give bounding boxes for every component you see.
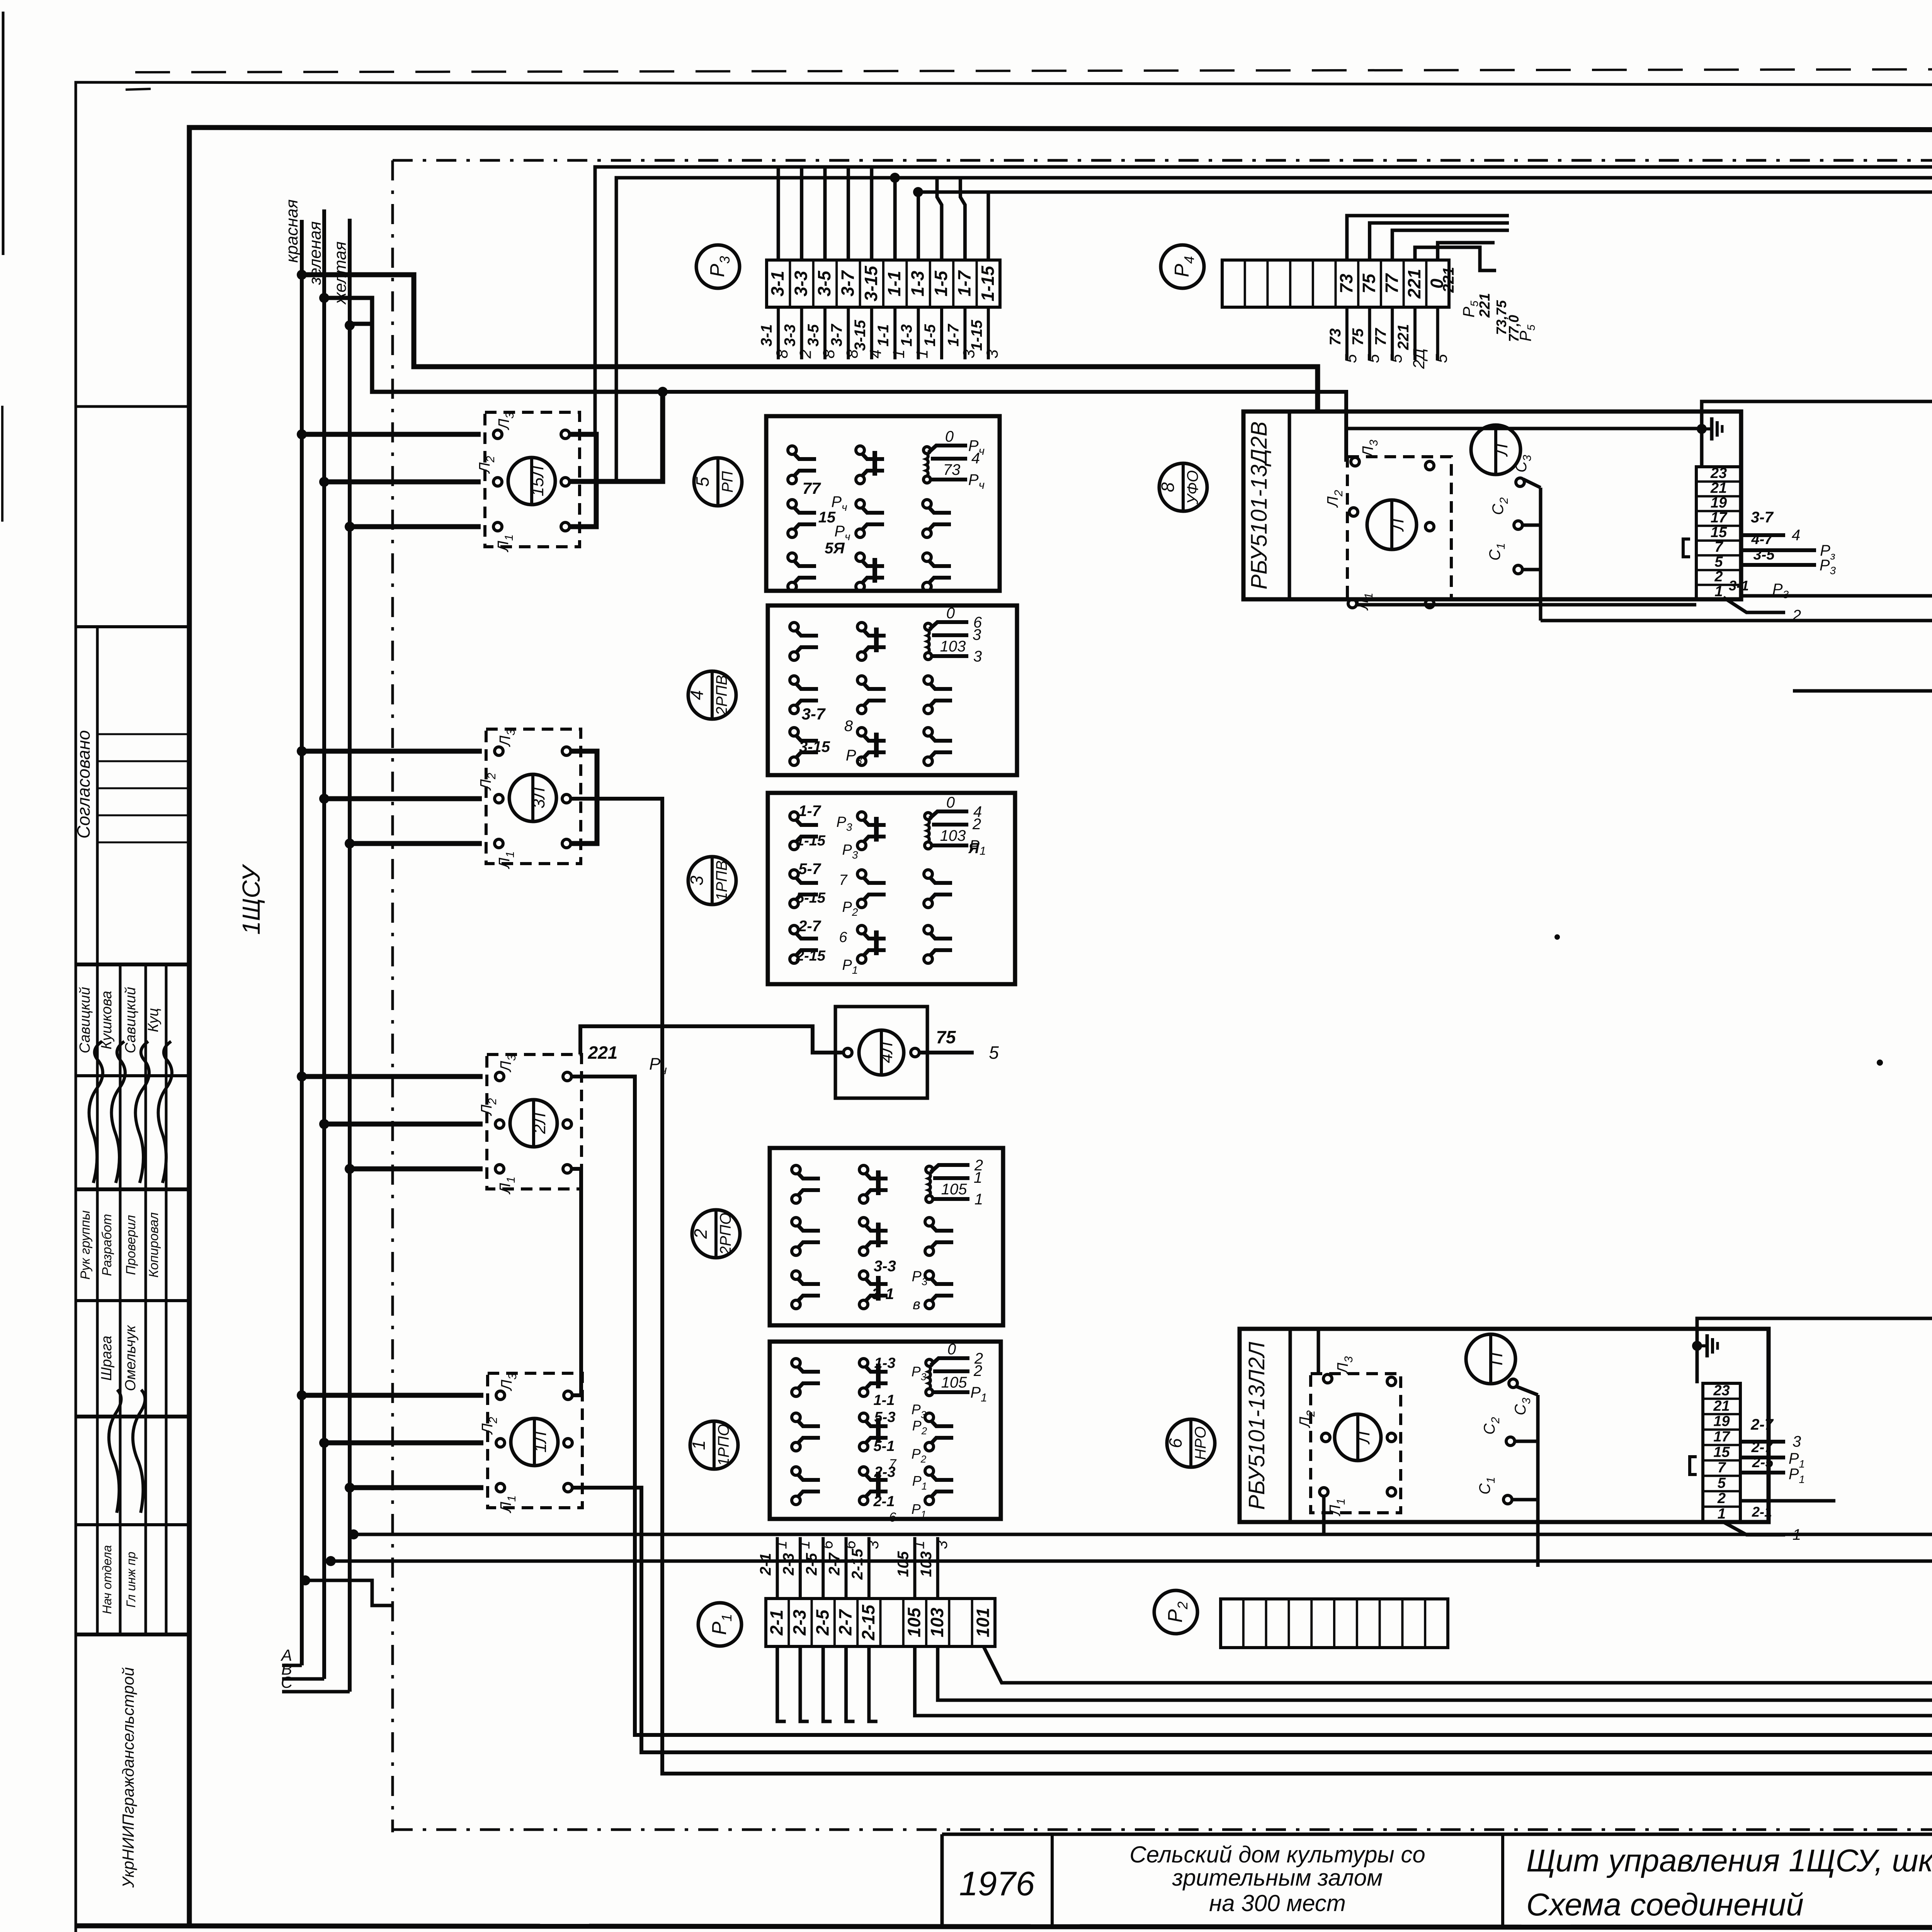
svg-text:3-15: 3-15 — [799, 738, 830, 755]
contact 1РПВ — [857, 812, 866, 820]
stamp thin sub rows — [97, 733, 189, 735]
wire red A stub — [300, 1575, 310, 1585]
svg-text:РБУ5101-13Л2Л: РБУ5101-13Л2Л — [1244, 1342, 1269, 1510]
contact РП — [788, 446, 796, 454]
contact РП — [856, 553, 864, 561]
wire red feed to RP coil — [302, 275, 1318, 412]
svg-text:3-3: 3-3 — [874, 1258, 896, 1275]
svg-text:1-3: 1-3 — [874, 1355, 896, 1371]
svg-text:5: 5 — [989, 1043, 999, 1063]
svg-text:П: П — [1486, 1352, 1506, 1366]
svg-text:1: 1 — [975, 1191, 983, 1208]
svg-text:6: 6 — [839, 929, 847, 946]
svg-text:Разработ: Разработ — [100, 1214, 114, 1276]
contact 2РПО — [792, 1165, 800, 1174]
svg-text:Л: Л — [1353, 1431, 1373, 1445]
wire yellow jog join — [350, 322, 372, 326]
wire Л1 to strip bottom — [1357, 603, 1696, 607]
svg-text:2-1: 2-1 — [767, 1610, 787, 1636]
terminal circle Р4 — [1161, 245, 1204, 288]
svg-text:5-3: 5-3 — [874, 1409, 896, 1425]
svg-text:2РПО: 2РПО — [717, 1213, 734, 1255]
contact 2РПВ — [857, 728, 866, 736]
wire phase to 2Л Л3 — [297, 1071, 307, 1082]
contact РП — [856, 446, 864, 454]
svg-text:Копировал: Копировал — [146, 1212, 161, 1277]
svg-text:103: 103 — [940, 638, 966, 655]
svg-text:2: 2 — [1717, 1490, 1726, 1507]
svg-text:красная: красная — [282, 199, 301, 263]
svg-text:2: 2 — [1714, 569, 1723, 585]
contact 2РПВ — [857, 676, 866, 684]
scan speck — [1554, 934, 1560, 940]
svg-text:1: 1 — [689, 1440, 709, 1450]
svg-text:2-7: 2-7 — [1751, 1439, 1774, 1456]
svg-text:2: 2 — [796, 349, 815, 359]
svg-text:1-7: 1-7 — [954, 270, 974, 296]
svg-text:6: 6 — [842, 1540, 859, 1549]
svg-text:8: 8 — [773, 349, 791, 359]
contact 2РПВ — [790, 676, 798, 684]
svg-text:0: 0 — [947, 1341, 956, 1358]
contact 2РПВ — [924, 676, 932, 684]
svg-text:75: 75 — [1350, 328, 1367, 345]
contact 1РПО — [859, 1359, 868, 1367]
svg-text:6: 6 — [819, 1540, 836, 1549]
lamp box 3Л — [486, 729, 581, 864]
terminal strip Р1 — [766, 1599, 995, 1646]
svg-text:103: 103 — [918, 1551, 935, 1577]
svg-text:УкрНИИПграждансельстрой: УкрНИИПграждансельстрой — [119, 1667, 137, 1888]
svg-text:77: 77 — [1381, 273, 1401, 294]
wire ground spur left — [1346, 427, 1702, 430]
svg-text:1: 1 — [1714, 583, 1723, 600]
contact 1РПВ — [857, 870, 866, 878]
svg-text:17: 17 — [1713, 1429, 1730, 1445]
designator circle 6 НРО — [1167, 1419, 1215, 1467]
svg-text:3-1: 3-1 — [758, 324, 775, 347]
svg-text:1: 1 — [913, 349, 931, 358]
contact РП — [923, 553, 931, 561]
terminal strip Р2 — [1221, 1599, 1448, 1648]
node green top feed — [319, 293, 329, 303]
contact 2РПО — [859, 1165, 868, 1174]
svg-text:6: 6 — [889, 1510, 896, 1525]
wire 1Л top-right jumper to 2Л — [572, 1169, 581, 1395]
svg-text:221: 221 — [1404, 269, 1424, 299]
svg-text:2-15: 2-15 — [849, 1548, 866, 1580]
svg-text:Схема соединений: Схема соединений — [1526, 1887, 1804, 1922]
svg-text:5-7: 5-7 — [798, 861, 821, 878]
svg-text:6: 6 — [1165, 1438, 1185, 1448]
svg-text:3Л: 3Л — [529, 787, 548, 808]
paper edge wavy dashes top — [135, 68, 1932, 72]
svg-text:1: 1 — [773, 1541, 790, 1549]
svg-text:Щит управления 1ЩСУ, шкаф 1: Щит управления 1ЩСУ, шкаф 1 — [1526, 1843, 1932, 1878]
stamp column dividers — [96, 627, 99, 1634]
svg-text:4: 4 — [971, 450, 980, 467]
svg-text:4: 4 — [687, 690, 707, 700]
wire Р1 101 to 4С — [983, 1212, 1932, 1683]
contact 1РПВ — [924, 925, 932, 934]
svg-text:1-5: 1-5 — [931, 270, 951, 296]
svg-text:Гл инж пр: Гл инж пр — [124, 1552, 138, 1608]
phase bus green vertical — [322, 209, 326, 1679]
svg-text:3-1: 3-1 — [1729, 578, 1749, 594]
wire phase to 1Л Л2 — [319, 1438, 329, 1448]
lamp box 1Л — [488, 1373, 582, 1508]
svg-text:3-7: 3-7 — [837, 270, 857, 296]
svg-text:2: 2 — [973, 1362, 982, 1379]
component box РБУ5101-13Д2В — [1243, 412, 1741, 599]
lamp box 15Л — [485, 412, 580, 547]
designator circle 3 1РПВ — [688, 857, 736, 905]
relay box 2РПВ — [768, 605, 1017, 775]
wire phase to 1Л Л1 — [345, 1483, 355, 1493]
upper box dashed lamp unit — [1347, 457, 1451, 599]
designator circle 5 РП — [694, 458, 742, 506]
wire lower Л1 to 3С net — [1322, 1496, 1326, 1534]
svg-text:5-1: 5-1 — [874, 1438, 895, 1454]
stamp band lines — [76, 405, 189, 408]
contact 1РПВ — [857, 925, 866, 934]
svg-text:2-3: 2-3 — [789, 1609, 810, 1636]
Р3 strip lower stubs and labels — [777, 307, 780, 359]
wire phase to 2Л Л2 — [319, 1119, 329, 1129]
contact РП — [788, 553, 796, 561]
wire 15L mid-right to green — [570, 392, 663, 481]
terminal strip Р3 — [767, 260, 1000, 307]
svg-text:75: 75 — [936, 1027, 956, 1047]
svg-text:4-7: 4-7 — [1751, 531, 1774, 548]
stamp signatures row2 — [102, 1389, 135, 1513]
contact 1РПО — [925, 1413, 934, 1422]
designator circle 4 2РПВ — [688, 671, 736, 719]
svg-text:7: 7 — [839, 872, 848, 888]
svg-text:4Л: 4Л — [877, 1042, 896, 1063]
contact 2РПВ — [924, 728, 932, 736]
wire phase to 15Л Л2 — [319, 477, 329, 487]
scan speck — [1877, 1060, 1883, 1066]
phase ends A B C — [282, 1664, 302, 1667]
svg-text:1976: 1976 — [959, 1864, 1035, 1903]
title block frame — [942, 1833, 1932, 1836]
contact 1РПО — [792, 1467, 800, 1475]
contact 1РПО — [925, 1467, 934, 1475]
svg-text:Проверил: Проверил — [124, 1215, 138, 1275]
svg-text:5: 5 — [1718, 1475, 1726, 1491]
svg-text:5Я: 5Я — [825, 540, 845, 557]
svg-text:РП: РП — [719, 471, 736, 493]
svg-text:3-7: 3-7 — [802, 705, 826, 723]
contact 2РПО — [925, 1271, 934, 1279]
svg-text:7: 7 — [1714, 539, 1723, 555]
svg-text:3: 3 — [934, 1541, 951, 1549]
svg-text:Я: Я — [968, 840, 980, 857]
svg-text:105: 105 — [904, 1607, 924, 1637]
phase bus red vertical — [300, 220, 304, 1665]
svg-text:в: в — [913, 1296, 920, 1313]
svg-text:Савицкий: Савицкий — [77, 987, 93, 1053]
node green 15L branch — [658, 387, 668, 397]
designator circle 1 1РПО — [690, 1421, 738, 1469]
wire phase to 2Л Л1 — [345, 1164, 355, 1174]
contact 2РПО — [925, 1218, 934, 1226]
svg-text:3: 3 — [973, 626, 981, 643]
svg-text:23: 23 — [1710, 465, 1727, 481]
upper box C contacts — [1516, 478, 1524, 486]
svg-text:1: 1 — [1718, 1506, 1726, 1522]
lamp box 4Л — [835, 1007, 927, 1098]
svg-text:15: 15 — [818, 509, 836, 526]
svg-text:5: 5 — [1387, 354, 1405, 363]
svg-text:Шрага: Шрага — [99, 1336, 115, 1381]
svg-text:3: 3 — [973, 648, 982, 665]
wire net 5У top — [918, 192, 1932, 443]
designator circle 2 2РПО — [692, 1210, 740, 1258]
svg-text:Савицкий: Савицкий — [122, 987, 139, 1053]
svg-text:3-5: 3-5 — [814, 270, 834, 296]
svg-text:1-5: 1-5 — [922, 324, 939, 347]
svg-text:3-7: 3-7 — [828, 323, 845, 347]
svg-text:8: 8 — [844, 718, 853, 735]
svg-text:221: 221 — [588, 1043, 618, 1063]
wire 3Л mid-right to 1С circuit — [571, 799, 1932, 1774]
svg-text:2-3: 2-3 — [874, 1464, 896, 1480]
svg-text:зрительным залом: зрительным залом — [1172, 1865, 1383, 1891]
svg-text:5: 5 — [1714, 554, 1723, 570]
coil 2РПО — [926, 1166, 933, 1173]
lamp box 2Л — [487, 1054, 582, 1189]
svg-text:НРО: НРО — [1192, 1427, 1209, 1460]
svg-text:Л: Л — [1491, 444, 1511, 457]
lower box C contacts — [1509, 1379, 1517, 1388]
svg-text:Куц: Куц — [145, 1008, 162, 1032]
svg-text:0: 0 — [946, 794, 955, 811]
svg-text:2: 2 — [972, 816, 981, 833]
wire phase to 3Л Л2 — [319, 794, 329, 804]
wire 3Л right jumper — [571, 751, 597, 844]
Р1 lower stubs — [777, 1646, 786, 1721]
contact РП — [923, 500, 931, 508]
svg-text:4: 4 — [1792, 527, 1800, 544]
wire green to UFO box — [372, 324, 663, 392]
node yellow top feed — [345, 320, 355, 330]
contact 2РПО — [792, 1218, 800, 1226]
terminal circle Р1 — [698, 1603, 742, 1646]
contact 2РПО — [859, 1218, 868, 1226]
svg-text:2-5: 2-5 — [812, 1609, 832, 1636]
relay box 1РПО — [770, 1342, 1001, 1519]
relay box 1РПВ — [768, 793, 1015, 984]
svg-text:3-3: 3-3 — [782, 324, 799, 347]
contact 1РПО — [792, 1413, 800, 1422]
svg-text:0: 0 — [946, 605, 955, 622]
wire upper strip to null bus — [1702, 401, 1932, 429]
svg-text:1РПО: 1РПО — [715, 1424, 732, 1466]
svg-text:221: 221 — [1440, 267, 1457, 293]
svg-text:С: С — [281, 1673, 293, 1691]
svg-text:8: 8 — [1158, 482, 1178, 492]
svg-text:3-3: 3-3 — [791, 270, 811, 296]
svg-text:5: 5 — [1432, 354, 1451, 363]
svg-text:3-15: 3-15 — [861, 265, 881, 301]
svg-text:УФО: УФО — [1184, 470, 1201, 505]
svg-text:5: 5 — [1364, 354, 1383, 363]
wire green jog — [324, 298, 372, 324]
svg-text:1-7: 1-7 — [945, 323, 962, 347]
wire lower strip to null bus — [1697, 1318, 1932, 1346]
contact 2РПВ — [790, 622, 798, 631]
svg-text:2-1: 2-1 — [873, 1493, 895, 1510]
svg-text:15: 15 — [1713, 1444, 1730, 1461]
svg-text:77: 77 — [803, 479, 821, 497]
svg-text:105: 105 — [941, 1181, 967, 1198]
lower box П circle — [1466, 1334, 1515, 1384]
cabinet boundary dash-dot — [393, 159, 1932, 162]
svg-text:4: 4 — [866, 349, 884, 358]
svg-text:19: 19 — [1713, 1413, 1730, 1430]
svg-text:221: 221 — [1477, 293, 1493, 318]
contact 1РПО — [792, 1359, 800, 1367]
svg-text:1: 1 — [974, 1169, 982, 1186]
svg-text:2РПВ: 2РПВ — [713, 675, 730, 716]
svg-text:1: 1 — [910, 1541, 927, 1549]
svg-text:3-1: 3-1 — [767, 271, 787, 296]
svg-text:3: 3 — [687, 876, 707, 886]
lower box dashed lamp unit — [1311, 1374, 1401, 1513]
svg-text:2-3: 2-3 — [780, 1553, 797, 1576]
component box РБУ5101-13Л2Л — [1240, 1329, 1769, 1522]
svg-text:5-15: 5-15 — [796, 890, 826, 906]
svg-text:1-15: 1-15 — [796, 833, 826, 849]
upper strip side wires — [1741, 533, 1785, 537]
wire 4Л left — [580, 1026, 844, 1054]
coil 1РПВ — [925, 813, 932, 820]
svg-text:Сельский дом культуры со: Сельский дом культуры со — [1129, 1842, 1425, 1867]
wire phase to 3Л Л3 — [297, 746, 307, 756]
wire 1Л bot-right to 13У circuit — [572, 1488, 1932, 1752]
svg-text:3: 3 — [983, 349, 1001, 358]
svg-text:2-1: 2-1 — [757, 1553, 774, 1576]
svg-text:23: 23 — [1713, 1383, 1730, 1399]
svg-text:1РПВ: 1РПВ — [713, 861, 730, 901]
svg-text:221: 221 — [1395, 324, 1412, 350]
contact 2РПВ — [790, 728, 798, 736]
wire phase to 1Л Л3 — [297, 1390, 307, 1400]
contact 1РПВ — [790, 812, 798, 820]
svg-text:на 300 мест: на 300 мест — [1209, 1890, 1346, 1916]
wire 15Л right jumper — [570, 434, 596, 527]
svg-text:2-15: 2-15 — [796, 948, 826, 964]
svg-text:Согласовано: Согласовано — [73, 730, 94, 839]
wire Р1 103 to 3У — [938, 1396, 1932, 1700]
svg-text:73: 73 — [1336, 274, 1356, 294]
svg-text:1: 1 — [796, 1541, 813, 1549]
svg-text:Нач отдела: Нач отдела — [100, 1545, 114, 1614]
lower box ground — [1692, 1341, 1702, 1351]
contact 1РПО — [859, 1467, 868, 1475]
contact РП — [788, 500, 796, 508]
svg-text:2-7: 2-7 — [1750, 1416, 1774, 1433]
svg-text:1-15: 1-15 — [968, 320, 985, 351]
svg-text:103: 103 — [940, 827, 966, 844]
coil РП — [923, 447, 930, 454]
svg-text:77: 77 — [1372, 328, 1389, 345]
svg-text:3-7: 3-7 — [1751, 509, 1774, 526]
svg-text:1-1: 1-1 — [884, 271, 904, 296]
svg-text:2-1: 2-1 — [1752, 1504, 1772, 1520]
coil 2РПВ — [925, 623, 932, 630]
contact 1РПВ — [790, 925, 798, 934]
svg-text:2-5: 2-5 — [803, 1553, 820, 1576]
upper box П circle — [1471, 425, 1520, 474]
svg-text:15: 15 — [1711, 524, 1727, 541]
svg-text:1-15: 1-15 — [978, 265, 998, 301]
svg-text:1-1: 1-1 — [875, 324, 892, 347]
svg-text:101: 101 — [973, 1608, 993, 1638]
svg-text:1ЩСУ: 1ЩСУ — [237, 864, 265, 935]
terminal strip Р4 — [1222, 260, 1449, 307]
lower box terminal strip 23-1 — [1703, 1383, 1740, 1522]
stamp signatures row1 — [81, 1041, 114, 1183]
phase bus yellow vertical — [348, 219, 352, 1692]
Р4 strip lower stubs and labels — [1345, 307, 1349, 360]
svg-text:2-5: 2-5 — [1752, 1454, 1774, 1471]
coil 1РПО — [926, 1359, 933, 1366]
svg-text:0: 0 — [945, 428, 954, 445]
wire net 4У top — [595, 167, 1932, 434]
wire phase to 15Л Л3 — [297, 429, 307, 439]
terminal circle Р2 — [1154, 1590, 1197, 1634]
contact 2РПО — [792, 1271, 800, 1279]
svg-text:РБУ5101-13Д2В: РБУ5101-13Д2В — [1247, 422, 1272, 590]
svg-text:21: 21 — [1710, 480, 1727, 496]
contact РП — [856, 500, 864, 508]
wire Р1 105 to 2У — [915, 1143, 1932, 1716]
wire 4Л right 75 5 — [919, 1051, 974, 1054]
paper edge artifact left — [2, 12, 5, 255]
lower box Л3 stub from box top — [1317, 1331, 1320, 1374]
svg-text:1: 1 — [889, 349, 908, 358]
relay box РП — [766, 416, 1000, 591]
wire phase to 3Л Л1 — [345, 838, 355, 849]
svg-text:105: 105 — [941, 1374, 967, 1391]
svg-text:2-7: 2-7 — [826, 1552, 843, 1576]
upper box terminal strip 23-1 — [1696, 467, 1741, 600]
svg-text:105: 105 — [895, 1551, 912, 1577]
svg-text:1-1: 1-1 — [874, 1392, 895, 1408]
svg-text:3-5: 3-5 — [805, 324, 822, 347]
svg-text:Омельчук: Омельчук — [122, 1325, 139, 1391]
terminal circle Р3 — [696, 245, 740, 288]
svg-text:75: 75 — [1359, 273, 1379, 294]
svg-text:73: 73 — [1327, 328, 1344, 346]
Р1 upper stubs and labels — [776, 1537, 779, 1599]
contact 2РПВ — [857, 622, 866, 631]
svg-text:3-5: 3-5 — [1753, 547, 1775, 563]
designator circle 8 УФО — [1159, 463, 1207, 511]
svg-text:103: 103 — [927, 1607, 947, 1637]
svg-text:1-7: 1-7 — [798, 803, 821, 820]
svg-text:Л: Л — [1387, 519, 1407, 532]
svg-text:3: 3 — [865, 1541, 882, 1549]
svg-text:3-15: 3-15 — [852, 320, 869, 351]
wire C contacts to 6С — [1541, 619, 1932, 622]
svg-text:3-1: 3-1 — [872, 1286, 894, 1303]
svg-text:73: 73 — [943, 461, 961, 478]
svg-text:8: 8 — [820, 349, 838, 359]
